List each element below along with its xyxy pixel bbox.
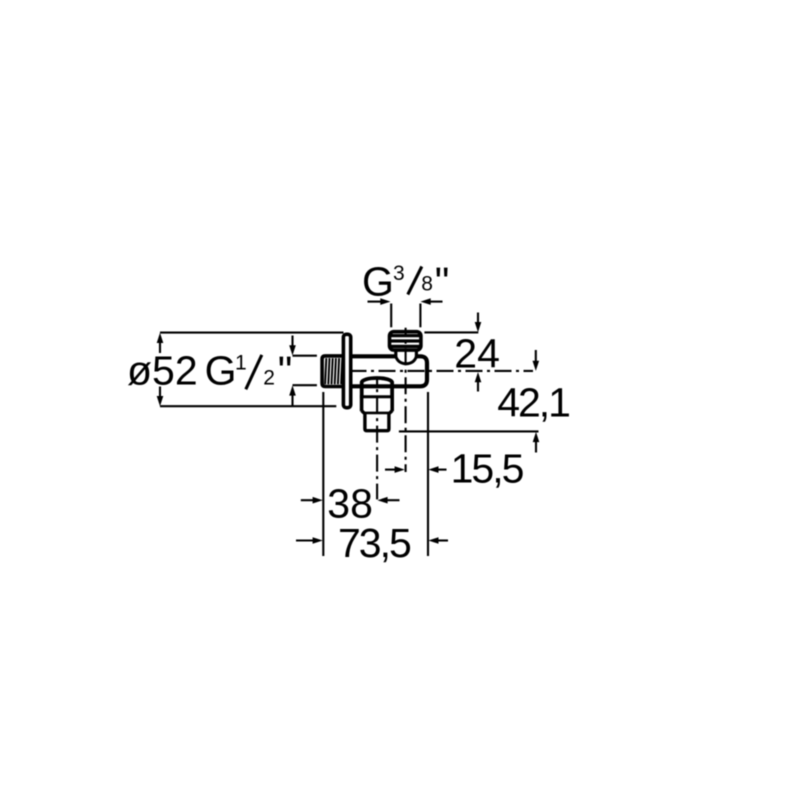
- outlet step line: [360, 395, 394, 398]
- dimension 24 arrows: [475, 322, 482, 332]
- dimension 73,5 lines: [296, 539, 448, 541]
- svg-text:": ": [278, 348, 293, 394]
- spigot thread hatching: [325, 358, 342, 384]
- vertical axis top inlet: [405, 328, 407, 472]
- dimension 73,5 arrows: [313, 537, 323, 544]
- valve body: [353, 356, 428, 386]
- dimension 24 lines: [424, 313, 478, 392]
- dimension G1/2 arrows: [289, 345, 296, 355]
- dimension ø52 lines: [160, 333, 344, 407]
- horizontal center line: [345, 370, 533, 372]
- dimension 15,5 lines: [385, 392, 447, 556]
- svg-text:1: 1: [235, 352, 247, 375]
- svg-text:": ": [435, 259, 450, 305]
- svg-text:G: G: [205, 347, 237, 393]
- wall flange: [343, 334, 350, 407]
- neck below nut: [396, 350, 417, 357]
- outlet nut walls: [362, 397, 393, 412]
- svg-text:73,5: 73,5: [338, 520, 411, 566]
- label ø52 G1/2": [127, 347, 292, 394]
- dimension 42,1 lines: [399, 350, 539, 453]
- svg-text:ø52: ø52: [127, 347, 198, 393]
- svg-text:42,1: 42,1: [497, 379, 569, 425]
- svg-text:2: 2: [263, 366, 275, 389]
- dimension ø52 arrows: [157, 333, 164, 343]
- dimension 38 arrows: [313, 497, 323, 504]
- svg-text:3: 3: [393, 262, 405, 285]
- dimension G3/8 lines: [368, 302, 443, 328]
- svg-text:24: 24: [454, 330, 500, 376]
- dimension 38 lines: [301, 392, 400, 556]
- dimension 15,5 arrows: [395, 466, 405, 473]
- top nut G3/8: [390, 332, 421, 350]
- svg-text:8: 8: [421, 273, 433, 296]
- outlet inner line: [363, 412, 390, 415]
- dimension G3/8 arrows: [380, 298, 390, 305]
- vertical axis outlet: [376, 379, 378, 500]
- svg-text:G: G: [362, 258, 394, 304]
- inlet spigot G1/2: [322, 356, 344, 387]
- countersink chamfer: [396, 357, 417, 364]
- outlet dome: [362, 378, 392, 397]
- svg-text:15,5: 15,5: [451, 446, 524, 492]
- nut knurl stripes: [390, 336, 421, 347]
- label G3/8": [362, 258, 449, 305]
- dimension G1/2 lines: [293, 336, 317, 406]
- outlet lower section: [362, 411, 393, 431]
- dimension 42,1 arrows: [533, 361, 540, 371]
